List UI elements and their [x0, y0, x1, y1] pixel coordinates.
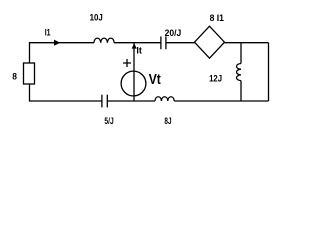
wire Vt branch: [133, 43, 135, 101]
svg-text:8: 8: [12, 71, 17, 82]
plus sign polarity: [123, 59, 131, 67]
wire cap to diamond: [166, 42, 195, 44]
resistor 8 (left branch): [24, 63, 35, 84]
svg-text:5/J: 5/J: [104, 116, 113, 127]
svg-text:It: It: [136, 45, 142, 56]
arrowhead I1: [54, 40, 60, 46]
inductor 10J: [94, 38, 114, 43]
wire left-top segment: [30, 43, 95, 63]
svg-text:20/J: 20/J: [165, 28, 182, 39]
wire diamond to right edge: [225, 42, 269, 44]
svg-text:10J: 10J: [90, 13, 103, 24]
wire left-bottom segment: [30, 84, 102, 101]
svg-text:12J: 12J: [209, 74, 222, 85]
wire bottom-right segment: [174, 100, 268, 102]
arrowhead It: [132, 43, 137, 48]
svg-text:Vt: Vt: [149, 72, 161, 88]
capacitor 20/J plate right: [165, 36, 167, 49]
capacitor 20/J plate left: [160, 36, 162, 49]
inductor 8J: [155, 97, 174, 101]
wire top-middle segment: [114, 42, 161, 44]
svg-text:I1: I1: [45, 27, 51, 38]
wire branch 12J lower stub: [240, 81, 242, 101]
svg-text:8J: 8J: [164, 116, 171, 127]
wire right edge: [268, 43, 270, 101]
dependent source U1 diamond: [195, 26, 225, 58]
capacitor 5/J plate right: [106, 95, 108, 108]
voltage source Vt circle: [121, 71, 146, 96]
wire branch 12J upper stub: [240, 43, 242, 64]
capacitor 5/J plate left: [101, 95, 103, 108]
inductor 12J: [237, 64, 242, 81]
wire bottom-middle segment: [107, 100, 155, 102]
svg-text:8 I1: 8 I1: [210, 13, 225, 24]
